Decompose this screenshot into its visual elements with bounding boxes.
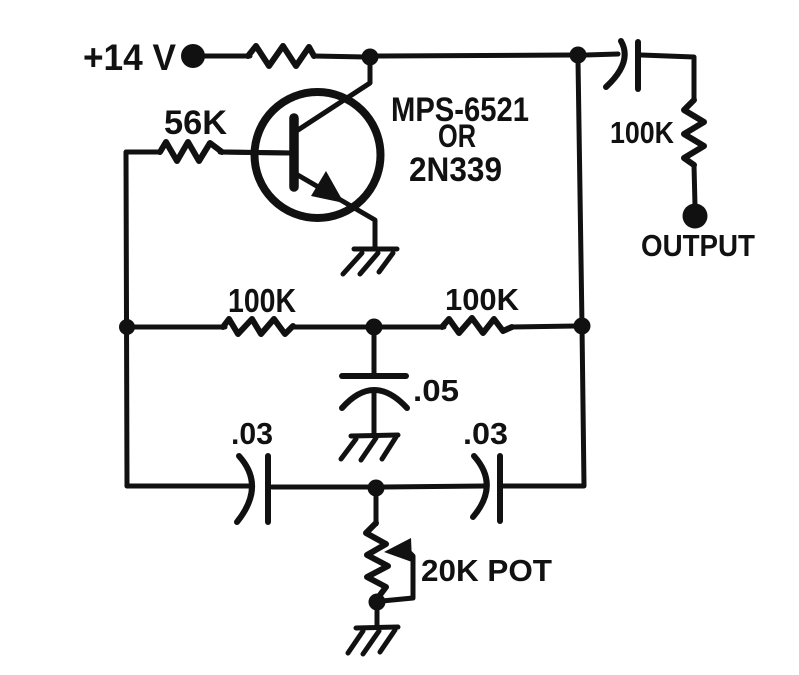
wire bottom left corner bbox=[127, 484, 250, 489]
wire C1 to ground bbox=[372, 391, 377, 434]
label 100K R3a bbox=[228, 282, 296, 319]
node collector junction bbox=[362, 49, 379, 66]
wire pot to ground bbox=[375, 610, 380, 627]
wire node to coupling capacitor bbox=[586, 54, 618, 55]
svg-text:100K: 100K bbox=[445, 282, 520, 317]
ground emitter bbox=[343, 249, 397, 274]
node mid feedback bbox=[366, 319, 383, 336]
svg-text:.05: .05 bbox=[413, 373, 459, 408]
label 100K R3b bbox=[445, 282, 520, 317]
node top-right junction bbox=[570, 47, 587, 64]
wire right rail bbox=[578, 60, 584, 485]
wire R1 to collector node bbox=[314, 56, 366, 57]
node right rail bbox=[574, 318, 591, 335]
wire left rail bbox=[126, 152, 160, 486]
svg-text:20K POT: 20K POT bbox=[421, 553, 552, 588]
label 100K R4 bbox=[610, 115, 675, 150]
capacitor C2 .03 left bbox=[237, 456, 268, 522]
svg-text:+14 V: +14 V bbox=[83, 37, 176, 78]
svg-text:100K: 100K bbox=[610, 115, 675, 150]
capacitor C4 coupling bbox=[606, 41, 638, 89]
wire collector node to top-right node bbox=[378, 55, 572, 56]
wire R3a to mid node bbox=[293, 325, 366, 330]
ground C1 bbox=[341, 435, 398, 460]
capacitor C3 .03 right bbox=[473, 456, 500, 521]
resistor R4 100K output load bbox=[684, 100, 704, 165]
svg-text:2N339: 2N339 bbox=[409, 151, 502, 189]
terminal dot OUTPUT bbox=[683, 204, 708, 229]
wire R4 to output terminal bbox=[694, 165, 695, 206]
svg-text:OR: OR bbox=[438, 118, 476, 154]
resistor R2 56K bbox=[160, 142, 222, 161]
label 2N339 bbox=[409, 151, 502, 189]
wire mid node down to C1 bbox=[372, 335, 377, 374]
wire left node to R3a bbox=[127, 325, 225, 330]
wire R3b to right node bbox=[512, 326, 576, 327]
label .05 bbox=[413, 373, 459, 408]
svg-text:100K: 100K bbox=[228, 282, 296, 319]
label .03 left bbox=[231, 416, 273, 451]
label 20K POT bbox=[421, 553, 552, 588]
svg-text:OUTPUT: OUTPUT bbox=[641, 228, 755, 263]
wire C4 to corner and down bbox=[641, 55, 694, 100]
ground pot bbox=[348, 627, 398, 654]
resistor R3a 100K bbox=[223, 319, 293, 334]
node feedback left bbox=[119, 319, 135, 335]
transistor Q1 emitter arrowhead bbox=[311, 171, 344, 203]
wire bottom mid node down to pot bbox=[374, 497, 379, 524]
wire mid node to R3b bbox=[382, 325, 444, 330]
terminal dot +14V bbox=[181, 44, 205, 68]
wire base lead bbox=[220, 152, 292, 153]
wire +14V dot to R1 bbox=[200, 54, 250, 59]
svg-text:.03: .03 bbox=[463, 416, 508, 451]
svg-text:56K: 56K bbox=[164, 104, 227, 142]
resistor R3b 100K bbox=[442, 318, 512, 333]
node bottom mid bbox=[368, 480, 385, 497]
wire collector lead into transistor bbox=[298, 62, 370, 130]
wire C3 to bottom mid node bbox=[384, 486, 484, 487]
wire bottom left segment bbox=[272, 485, 368, 490]
label +14 V bbox=[83, 37, 176, 78]
label 56K bbox=[164, 104, 227, 142]
label .03 right bbox=[463, 416, 508, 451]
transistor Q1 body circle bbox=[255, 92, 381, 218]
transistor Q1 emitter lead bbox=[296, 174, 375, 249]
wire 56K to base bbox=[222, 152, 292, 153]
svg-text:.03: .03 bbox=[231, 416, 273, 451]
label OUTPUT bbox=[641, 228, 755, 263]
label OR bbox=[438, 118, 476, 154]
wire bottom right bbox=[502, 484, 584, 489]
potentiometer R5 20K body bbox=[366, 523, 388, 599]
node pot bottom bbox=[369, 594, 386, 611]
resistor R1 collector load bbox=[248, 46, 314, 66]
label MPS-6521 bbox=[391, 91, 529, 129]
capacitor C1 .05 bbox=[342, 376, 407, 408]
transistor Q1 base bar bbox=[289, 118, 299, 187]
potentiometer wiper arrow bbox=[382, 538, 413, 601]
